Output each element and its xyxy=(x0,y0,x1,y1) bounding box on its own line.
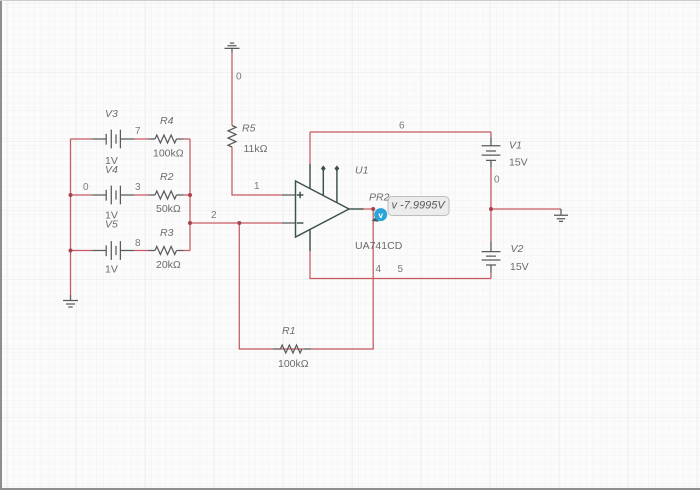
svg-text:PR2: PR2 xyxy=(369,192,390,204)
svg-text:100kΩ: 100kΩ xyxy=(153,148,184,160)
svg-text:V3: V3 xyxy=(105,108,118,120)
svg-text:6: 6 xyxy=(399,121,405,132)
svg-text:v: v xyxy=(378,210,383,220)
svg-text:2: 2 xyxy=(211,210,217,221)
svg-text:50kΩ: 50kΩ xyxy=(156,203,181,215)
svg-text:R3: R3 xyxy=(160,227,174,239)
svg-text:7: 7 xyxy=(135,126,141,137)
svg-text:v -7.9995V: v -7.9995V xyxy=(392,200,447,212)
svg-text:20kΩ: 20kΩ xyxy=(156,259,181,271)
svg-text:R1: R1 xyxy=(282,325,295,337)
svg-text:8: 8 xyxy=(135,238,141,249)
svg-text:1: 1 xyxy=(254,181,260,192)
svg-text:4: 4 xyxy=(376,264,382,275)
svg-text:100kΩ: 100kΩ xyxy=(278,358,309,370)
svg-text:1V: 1V xyxy=(105,210,118,222)
svg-text:15V: 15V xyxy=(509,157,528,169)
svg-text:U1: U1 xyxy=(355,165,368,177)
svg-text:3: 3 xyxy=(135,182,141,193)
svg-text:1V: 1V xyxy=(105,264,118,276)
svg-text:R2: R2 xyxy=(160,171,174,183)
svg-text:0: 0 xyxy=(494,175,500,186)
svg-text:V1: V1 xyxy=(509,140,522,152)
svg-text:R5: R5 xyxy=(242,123,256,135)
svg-text:UA741CD: UA741CD xyxy=(355,240,403,252)
svg-text:R4: R4 xyxy=(160,115,174,127)
svg-text:11kΩ: 11kΩ xyxy=(244,143,268,155)
svg-text:15V: 15V xyxy=(510,261,529,273)
svg-text:0: 0 xyxy=(83,182,89,193)
svg-text:1V: 1V xyxy=(105,155,118,167)
svg-text:0: 0 xyxy=(236,72,242,83)
svg-text:5: 5 xyxy=(398,264,404,275)
svg-text:V2: V2 xyxy=(511,243,524,255)
